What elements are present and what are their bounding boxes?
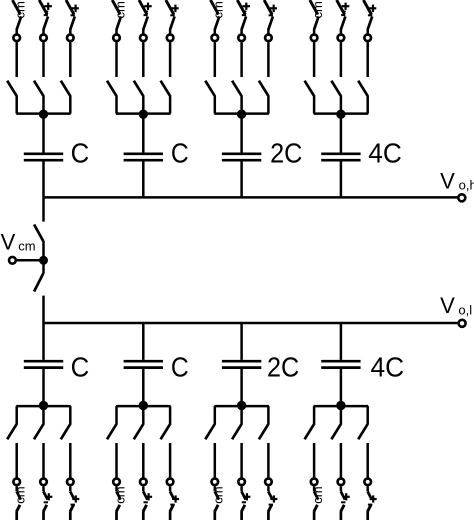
svg-text:V: V xyxy=(1,230,16,255)
svg-text:C: C xyxy=(171,352,189,383)
svg-text:C: C xyxy=(171,138,189,169)
svg-text:cm: cm xyxy=(13,486,28,503)
svg-text:V: V xyxy=(440,169,455,194)
svg-text:cm: cm xyxy=(211,1,226,18)
svg-text:cm: cm xyxy=(310,1,325,18)
svg-text:C: C xyxy=(71,138,90,169)
svg-text:C: C xyxy=(71,352,90,383)
svg-text:cm: cm xyxy=(112,1,127,18)
svg-text:V: V xyxy=(440,293,455,318)
svg-text:4C: 4C xyxy=(368,138,402,169)
svg-text:cm: cm xyxy=(211,486,226,503)
svg-text:cm: cm xyxy=(112,486,127,503)
svg-text:2C: 2C xyxy=(267,352,299,383)
svg-text:o,h: o,h xyxy=(459,178,474,193)
svg-text:4C: 4C xyxy=(371,352,405,383)
svg-text:cm: cm xyxy=(13,1,28,18)
svg-text:o,l: o,l xyxy=(458,303,472,318)
svg-text:cm: cm xyxy=(18,238,35,253)
svg-text:2C: 2C xyxy=(270,138,302,169)
svg-text:cm: cm xyxy=(310,486,325,503)
